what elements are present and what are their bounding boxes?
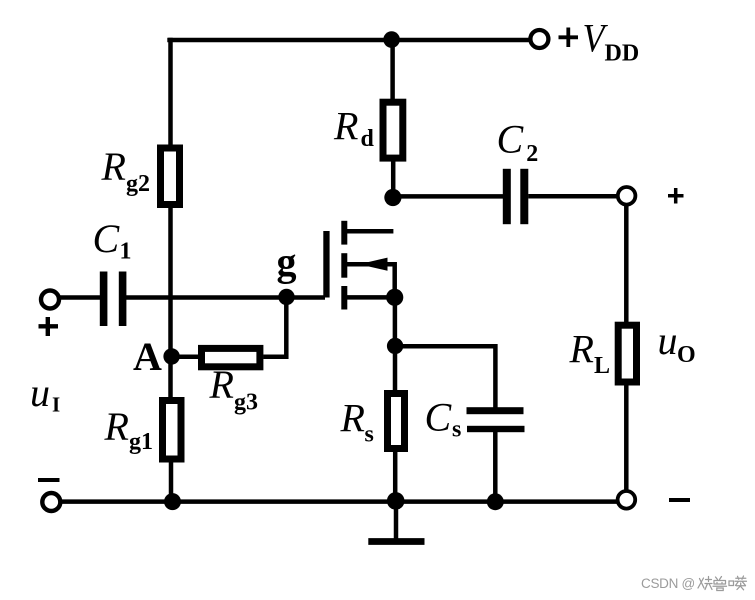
capacitor C2	[503, 169, 529, 224]
svg-text:d: d	[361, 126, 375, 152]
label - (output polarity)	[669, 498, 690, 502]
terminal: +VDD	[530, 30, 548, 48]
svg-text:R: R	[101, 144, 126, 189]
ground	[368, 538, 424, 545]
wire: RL bottom to lower output terminal	[624, 385, 629, 493]
wire: Cs bottom to bottom rail	[493, 432, 498, 502]
wire: source node down to Cs junction	[393, 297, 398, 346]
svg-text:2: 2	[526, 141, 538, 167]
node: source junction	[386, 289, 403, 306]
wire: input terminal to C1	[58, 295, 101, 300]
node: Rs / bottom rail junction	[387, 492, 405, 510]
resistor Rg1	[163, 401, 182, 460]
wire: top supply rail	[167, 38, 530, 43]
label Rs	[340, 396, 374, 448]
node: drain junction	[384, 189, 401, 206]
svg-text:u: u	[658, 318, 678, 363]
node: source / Cs branch junction	[387, 338, 403, 354]
capacitor Cs	[467, 407, 525, 432]
wire: C2 to output terminal	[528, 194, 617, 199]
wire: ground stem	[394, 501, 399, 541]
wire: bottom rail	[59, 499, 617, 504]
wire: Rg1 bottom to bottom rail	[169, 461, 174, 502]
resistor RL	[618, 325, 636, 382]
svg-text:C: C	[93, 216, 121, 261]
svg-text:CSDN @: CSDN @	[641, 576, 695, 591]
svg-text:DD: DD	[605, 40, 640, 66]
label + (output polarity)	[668, 188, 684, 204]
svg-text:g1: g1	[129, 429, 153, 455]
terminal: input -	[42, 493, 60, 511]
svg-text:C: C	[425, 395, 453, 440]
node: supply rail / Rd junction	[383, 31, 400, 48]
svg-text:A: A	[133, 334, 162, 379]
terminal: output +	[618, 187, 636, 205]
svg-text:I: I	[52, 393, 60, 417]
label Rg3	[209, 362, 259, 416]
label - (input polarity)	[38, 478, 60, 482]
terminal: output -	[618, 491, 636, 509]
svg-text:R: R	[104, 404, 129, 449]
label +VDD	[559, 16, 640, 67]
resistor Rg3	[202, 348, 260, 366]
node g	[278, 289, 294, 305]
svg-text:g: g	[277, 240, 297, 285]
wire: drain node to C2	[393, 194, 503, 199]
label Rg2	[101, 144, 151, 197]
label Rd	[333, 104, 375, 153]
wire: output terminal to RL	[624, 204, 629, 323]
wire: Rd top riser from supply junction	[390, 40, 395, 99]
svg-text:R: R	[340, 396, 365, 441]
svg-text:s: s	[452, 417, 461, 443]
wire: upper left riser (top rail to Rg2)	[168, 38, 173, 146]
label uO	[658, 318, 696, 368]
label C2	[497, 117, 539, 168]
wire: left riser (Rg2 bottom through node A to Rg1)	[168, 207, 173, 399]
node: Cs / bottom rail junction	[487, 493, 504, 510]
svg-text:u: u	[30, 370, 50, 415]
svg-text:s: s	[365, 422, 374, 448]
svg-text:R: R	[333, 104, 358, 149]
wire: Rs bottom to bottom rail	[393, 452, 398, 502]
watermark CSDN	[641, 576, 747, 591]
svg-text:R: R	[209, 362, 234, 407]
wire: node A to Rg3	[172, 354, 199, 359]
svg-text:1: 1	[120, 239, 132, 265]
transistor Q1 (N-channel MOSFET)	[323, 221, 394, 310]
node A junction	[163, 348, 179, 364]
svg-text:g3: g3	[234, 390, 258, 416]
svg-text:L: L	[594, 353, 610, 379]
resistor Rg2	[161, 148, 180, 205]
wire: Cs branch (junction to Cs top)	[395, 346, 495, 407]
wire: Rd bottom to drain node	[391, 161, 396, 197]
label Cs	[425, 395, 462, 443]
wire: Rg3 right to g node riser	[263, 299, 286, 357]
capacitor C1	[100, 272, 127, 327]
terminal: input +	[41, 291, 59, 309]
resistor Rs	[388, 394, 405, 449]
label Rg1	[104, 404, 154, 455]
wire: Cs junction to Rs	[393, 346, 398, 391]
svg-text:C: C	[497, 117, 525, 162]
label RL	[569, 327, 611, 380]
svg-text:O: O	[677, 342, 696, 368]
svg-text:g2: g2	[126, 171, 150, 197]
label + (input polarity)	[39, 317, 59, 336]
resistor Rd	[383, 102, 403, 158]
label uI	[30, 370, 60, 417]
wire: C1 to gate (crosses riser, no dot)	[126, 295, 325, 300]
svg-text:R: R	[569, 327, 594, 372]
label C1	[93, 216, 132, 265]
node: Rg1 / bottom rail junction	[164, 493, 181, 510]
